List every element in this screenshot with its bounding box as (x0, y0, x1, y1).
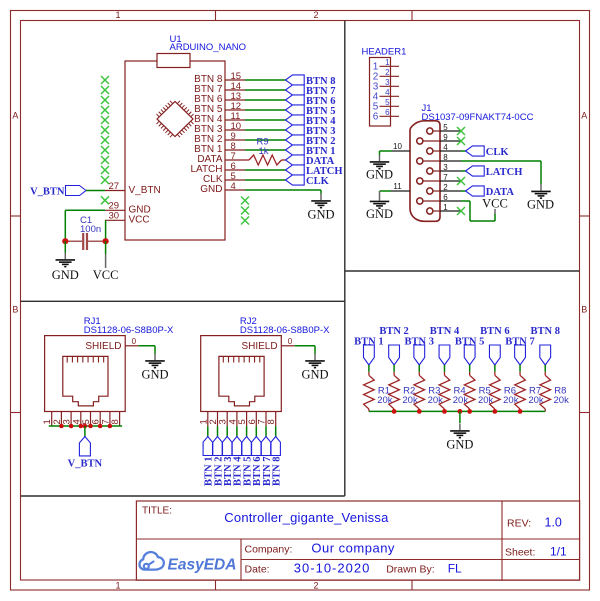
border label row A right (581, 111, 587, 121)
svg-text:VCC: VCC (129, 215, 150, 226)
title block Date: label (245, 564, 270, 576)
RJ2 pin 4 (227, 412, 238, 425)
resistor R5 20k (464, 372, 493, 412)
wire U1 pin to BTN 2 flag (245, 139, 286, 141)
wire BTN 3 flag to R3 (418, 365, 420, 372)
svg-text:BTN 8: BTN 8 (530, 326, 559, 337)
wire U1 pin 30 to C1 (105, 220, 107, 241)
U1 reference label (170, 34, 182, 45)
resistor R2 20k (389, 372, 418, 412)
J1 no-connect pin 1 (457, 207, 465, 215)
border label column 2 top (313, 10, 318, 20)
netflag BTN 8 (286, 75, 336, 87)
svg-text:GND: GND (527, 197, 554, 211)
wire C1 to VCC (105, 241, 107, 254)
U1 pin 5 CLK (203, 171, 245, 185)
power VCC J1 (482, 197, 508, 215)
svg-text:Controller_gigante_Venissa: Controller_gigante_Venissa (224, 510, 389, 525)
netflag BTN 5 (286, 105, 336, 117)
RJ2 pin 3 (218, 412, 229, 425)
svg-text:1: 1 (115, 580, 120, 590)
junction C1 left (62, 238, 68, 244)
wire RJ2 pin 7 to flag (265, 421, 267, 437)
wire ladder to GND (459, 411, 461, 423)
border label row B right (581, 305, 587, 315)
EasyEDA logo (139, 552, 236, 573)
netflag BTN 3 (286, 125, 336, 137)
svg-text:GND: GND (366, 167, 393, 181)
title block TITLE: label (142, 506, 172, 517)
svg-text:BTN 8: BTN 8 (272, 457, 283, 486)
junction C1 right (103, 238, 109, 244)
resistor R3 20k (414, 372, 443, 412)
J1 no-connect pin 9 (457, 137, 465, 145)
svg-text:BTN 6: BTN 6 (480, 326, 509, 337)
wire RJ1 bus to V_BTN (84, 426, 86, 437)
svg-text:Drawn By:: Drawn By: (386, 564, 434, 576)
svg-text:BTN 4: BTN 4 (430, 326, 460, 337)
U1 pin 15 BTN 8 (194, 71, 245, 85)
U1 no-connect pin 1 (241, 217, 249, 225)
netflag BTN 1 ladder (354, 336, 383, 365)
J1 value label DS1037-09FNAKT74-0CC (422, 112, 534, 123)
junction dots RJ1 bus (59, 424, 112, 429)
title block Date value 30-10-2020 (294, 560, 371, 575)
wire BTN 1 flag to R1 (368, 365, 370, 372)
U1 pin 7 DATA (197, 151, 245, 165)
U1 no-connect pins 16-26 (101, 76, 109, 184)
U1 pin 29 GND (105, 201, 151, 216)
svg-text:7: 7 (443, 173, 448, 182)
svg-text:SHIELD: SHIELD (241, 341, 277, 352)
svg-text:B: B (581, 305, 587, 315)
title block Company: label (245, 544, 293, 556)
wire U1 GND pin (245, 190, 321, 194)
J1 pin 2 (427, 183, 461, 194)
svg-text:0: 0 (288, 337, 293, 346)
svg-text:6: 6 (443, 193, 448, 202)
RJ1 pin 1 (42, 412, 53, 425)
netflag BTN 1 (286, 145, 336, 157)
U1 pin 14 BTN 7 (194, 81, 245, 95)
power VCC C1 (93, 254, 119, 282)
svg-text:GND: GND (446, 437, 473, 451)
border column tick marks top (216, 11, 413, 21)
wire U1 pin to BTN 6 flag (245, 99, 286, 101)
title block REV: label (507, 518, 531, 530)
svg-text:GND: GND (141, 368, 168, 382)
wire RJ1 pin bus (49, 421, 122, 426)
netflag BTN 6 at RJ2 (252, 437, 264, 487)
netflag DATA J1 (461, 186, 514, 198)
J1 pin 7 (417, 173, 461, 184)
HEADER1 pin 5 (373, 98, 399, 113)
svg-text:1: 1 (443, 203, 448, 212)
svg-text:100n: 100n (80, 224, 101, 235)
wire J1 pin 8 to GND (461, 161, 541, 184)
J1 pin 8 (417, 153, 461, 164)
U1 no-connect pin 3 (241, 197, 249, 205)
RJ1 pin 2 (52, 412, 63, 425)
netflag BTN 2 ladder (379, 326, 408, 365)
ground RJ1 (141, 354, 168, 382)
J1 reference label (422, 103, 432, 114)
HEADER1 pin 2 (373, 68, 399, 83)
title block REV value 1.0 (545, 516, 562, 530)
U1 no-connect pin 2 (241, 207, 249, 215)
U1 pin 27 V_BTN (105, 181, 161, 196)
svg-text:4: 4 (231, 181, 236, 192)
svg-text:VCC: VCC (482, 197, 508, 211)
U1 pin 30 VCC (105, 211, 150, 226)
svg-text:GND: GND (366, 207, 393, 221)
svg-text:1/1: 1/1 (550, 545, 567, 559)
J1 pin 10 (392, 142, 410, 151)
wire RJ2 pin 3 to flag (226, 421, 228, 437)
U1 pin 10 BTN 3 (194, 121, 245, 135)
svg-text:BTN 2: BTN 2 (379, 326, 408, 337)
J1 no-connect pin 5 (457, 127, 465, 135)
ground J1 pin 10 (366, 155, 393, 182)
wire RJ2 pin 1 to flag (207, 421, 209, 437)
svg-text:B: B (12, 305, 18, 315)
wire RJ2 pin 6 to flag (255, 421, 257, 437)
RJ1 pin 6 (91, 412, 102, 425)
wire J1 pin 11 to GND (380, 190, 392, 192)
svg-text:ARDUINO_NANO: ARDUINO_NANO (170, 42, 247, 53)
svg-text:GND: GND (307, 208, 334, 222)
svg-text:6: 6 (373, 112, 379, 123)
capacitor C1 100n (65, 215, 105, 250)
netflag BTN 5 at RJ2 (242, 437, 254, 487)
svg-text:DS1128-06-S8B0P-X: DS1128-06-S8B0P-X (240, 325, 330, 336)
HEADER1 pin 1 (373, 58, 399, 73)
wire U1 pin 29 to C1 (65, 210, 105, 241)
region divider bottom-left top edge (21, 300, 345, 302)
svg-text:REV:: REV: (507, 518, 531, 530)
svg-text:DS1128-06-S8B0P-X: DS1128-06-S8B0P-X (84, 325, 174, 336)
netflag BTN 4 (286, 115, 337, 127)
svg-text:8: 8 (443, 153, 448, 162)
svg-text:1: 1 (115, 10, 120, 20)
resistor R9 1k (245, 137, 286, 166)
title block Sheet value 1/1 (550, 545, 567, 559)
U1 pin 13 BTN 6 (194, 91, 245, 105)
wire U1 pin to BTN 5 flag (245, 109, 286, 111)
netflag CLK J1 (461, 146, 509, 158)
netflag BTN 5 ladder (455, 336, 484, 365)
svg-text:1k: 1k (259, 146, 269, 157)
region divider vertical (344, 21, 346, 497)
svg-text:3: 3 (443, 163, 448, 172)
svg-text:5: 5 (443, 123, 448, 132)
RJ2 body with jack outline (201, 336, 282, 412)
U1 pin 12 BTN 5 (194, 101, 245, 115)
RJ1 reference label (84, 316, 101, 327)
RJ1 pin 0 SHIELD (85, 337, 138, 352)
netflag LATCH (286, 165, 343, 177)
svg-text:GND: GND (301, 368, 328, 382)
HEADER1 pin 6 (373, 108, 399, 123)
svg-text:4: 4 (385, 88, 390, 97)
netflag BTN 4 at RJ2 (232, 437, 244, 487)
RJ1 pin 7 (100, 412, 111, 425)
wire BTN 5 flag to R5 (469, 365, 471, 372)
netflag BTN 4 ladder (430, 326, 460, 365)
netflag V_BTN input (30, 186, 86, 198)
svg-text:30: 30 (109, 211, 120, 222)
svg-text:20k: 20k (554, 395, 570, 406)
J1 pin 11 (391, 182, 410, 191)
ground U1 (307, 194, 334, 222)
RJ1 body with jack outline (45, 336, 126, 412)
wire V_BTN to U1 pin 27 (86, 190, 105, 192)
J1 no-connect pin 7 (457, 177, 465, 185)
wire RJ2 pin 2 to flag (217, 421, 219, 437)
svg-text:V_BTN: V_BTN (68, 459, 103, 470)
wire U1 pin to BTN 7 flag (245, 89, 286, 91)
svg-text:V_BTN: V_BTN (129, 185, 161, 196)
border label column 2 bottom (313, 580, 318, 590)
title block Drawn By: label (386, 564, 434, 576)
wire U1 pin to BTN 4 flag (245, 119, 286, 121)
svg-text:CLK: CLK (306, 176, 330, 187)
wire U1 LATCH (245, 169, 286, 171)
svg-text:0: 0 (132, 337, 137, 346)
J1 pin 9 (417, 133, 461, 144)
HEADER1 pin 3 (373, 78, 399, 93)
J1 connector body (410, 121, 440, 222)
RJ1 value label DS1128-06-S8B0P-X (84, 325, 174, 336)
svg-text:GND: GND (52, 268, 79, 282)
svg-text:GND: GND (200, 184, 222, 195)
wire BTN 4 flag to R4 (443, 365, 445, 372)
netflag LATCH J1 (461, 166, 522, 178)
U1 chip glyph (156, 101, 193, 137)
svg-text:VCC: VCC (93, 268, 119, 282)
svg-text:2: 2 (385, 68, 390, 77)
wire resistor ladder bus (369, 410, 545, 412)
svg-text:FL: FL (448, 561, 462, 575)
resistor R6 20k (490, 372, 519, 412)
netflag BTN 6 ladder (480, 326, 509, 365)
netflag V_BTN RJ1 (68, 437, 103, 470)
U1 body (125, 61, 225, 240)
U1 no-connect pin 28 (101, 196, 109, 204)
wire C1 to GND (64, 241, 66, 252)
U1 pin 11 BTN 4 (194, 111, 245, 125)
svg-text:2: 2 (443, 183, 448, 192)
RJ2 pin 6 (247, 412, 258, 425)
border column tick marks bottom (216, 580, 413, 590)
netflag BTN 2 (286, 135, 336, 147)
ground ladder (446, 424, 473, 452)
RJ2 pin 8 (266, 412, 277, 425)
U1 pin 4 GND (200, 181, 245, 195)
wire U1 CLK (245, 179, 286, 181)
netflag BTN 3 at RJ2 (223, 437, 235, 487)
title block frame and cell lines (136, 501, 579, 580)
RJ1 pin 5 (81, 412, 92, 425)
title block Drawn By value FL (448, 561, 462, 575)
wire RJ2 pin 5 to flag (246, 421, 248, 437)
RJ2 pin 1 (198, 412, 209, 425)
svg-text:27: 27 (109, 181, 120, 192)
svg-text:Sheet:: Sheet: (505, 547, 535, 559)
resistor R1 20k (364, 372, 393, 412)
J1 pin 4 (427, 143, 461, 154)
HEADER1 label (362, 47, 407, 58)
svg-text:HEADER1: HEADER1 (362, 47, 407, 58)
border label row B left (12, 305, 18, 315)
resistor R4 20k (439, 372, 468, 412)
RJ2 pin 7 (257, 412, 268, 425)
netflag BTN 6 (286, 95, 336, 107)
RJ2 value label DS1128-06-S8B0P-X (240, 325, 330, 336)
wire BTN 2 flag to R2 (393, 365, 395, 372)
svg-text:CLK: CLK (486, 147, 510, 158)
svg-text:1: 1 (385, 58, 390, 67)
resistor R8 20k (540, 372, 569, 412)
HEADER1 pin 4 (373, 88, 399, 103)
wire BTN 7 flag to R7 (519, 365, 521, 372)
svg-text:3: 3 (385, 78, 390, 87)
U1 pin 8 BTN 1 (194, 141, 245, 155)
svg-text:Our company: Our company (311, 540, 395, 555)
wire U1 pin to BTN 1 flag (245, 149, 286, 151)
RJ2 pin 5 (237, 412, 248, 425)
RJ2 pin 0 SHIELD (241, 337, 294, 352)
border label row A left (12, 111, 18, 121)
svg-text:LATCH: LATCH (486, 167, 523, 178)
wire BTN 8 flag to R8 (544, 365, 546, 372)
svg-text:TITLE:: TITLE: (142, 506, 172, 517)
J1 pin 3 (427, 163, 461, 174)
svg-text:V_BTN: V_BTN (30, 187, 65, 198)
title block title text Controller_gigante_Venissa (224, 510, 389, 525)
svg-text:10: 10 (393, 142, 402, 151)
netflag BTN 7 (286, 85, 336, 97)
netflag BTN 7 ladder (505, 336, 534, 365)
border row tick marks right (580, 216, 590, 413)
ground J1 pin 8 (527, 184, 554, 211)
netflag BTN 7 at RJ2 (261, 437, 273, 487)
svg-text:A: A (12, 111, 18, 121)
J1 pin 5 (427, 123, 461, 134)
ground RJ2 (301, 354, 328, 382)
U1 pin 6 LATCH (190, 161, 245, 175)
svg-text:2: 2 (313, 10, 318, 20)
RJ1 pin 8 (110, 412, 121, 425)
region divider horizontal right (345, 270, 580, 272)
svg-text:6: 6 (385, 108, 390, 117)
wire J1 pin 10 to GND (380, 151, 393, 155)
svg-text:Company:: Company: (245, 544, 293, 556)
border label column 1 top (115, 10, 120, 20)
RJ2 pin 2 (208, 412, 219, 425)
wire J1 pin 6 to VCC (461, 201, 495, 221)
ground J1 pin 11 (366, 191, 393, 221)
U1 value label ARDUINO_NANO (170, 42, 247, 53)
J1 pin 1 (427, 203, 461, 214)
wire U1 pin to BTN 8 flag (245, 79, 286, 81)
RJ2 reference label (240, 316, 257, 327)
HEADER1 body (370, 58, 391, 127)
title block Company value Our company (311, 540, 395, 555)
netflag CLK (286, 175, 330, 187)
border row tick marks left (11, 216, 21, 413)
netflag DATA (286, 155, 335, 167)
ground C1 (52, 253, 79, 282)
resistor R7 20k (515, 372, 544, 412)
RJ1 pin 3 (62, 412, 73, 425)
U1 pin 9 BTN 2 (194, 131, 245, 145)
RJ1 pin 4 (71, 412, 82, 425)
svg-text:EasyEDA: EasyEDA (168, 557, 237, 574)
svg-text:SHIELD: SHIELD (85, 341, 121, 352)
netflag BTN 3 ladder (405, 336, 434, 365)
region divider bottom-left bottom edge (21, 495, 345, 497)
svg-text:1.0: 1.0 (545, 516, 562, 530)
netflag BTN 8 ladder (530, 326, 559, 365)
wire RJ2 SHIELD to GND (295, 346, 315, 354)
netflag BTN 8 at RJ2 (271, 437, 283, 487)
wire BTN 6 flag to R6 (494, 365, 496, 372)
J1 pin 6 (417, 193, 461, 204)
svg-text:9: 9 (443, 133, 448, 142)
junction dots ladder (392, 409, 523, 414)
wire RJ1 SHIELD to GND (139, 346, 155, 354)
title block Sheet: label (505, 547, 535, 559)
svg-text:5: 5 (385, 98, 390, 107)
wire U1 pin to BTN 3 flag (245, 129, 286, 131)
svg-text:4: 4 (443, 143, 448, 152)
svg-text:2: 2 (313, 580, 318, 590)
svg-text:Date:: Date: (245, 564, 270, 576)
wire RJ2 pin 4 to flag (236, 421, 238, 437)
border label column 1 bottom (115, 580, 120, 590)
wire RJ2 pin 8 to flag (275, 421, 277, 437)
netflag BTN 2 at RJ2 (213, 437, 225, 487)
svg-text:11: 11 (393, 182, 402, 191)
U1 usb notch (157, 54, 190, 68)
svg-text:A: A (581, 111, 587, 121)
svg-text:30-10-2020: 30-10-2020 (294, 560, 371, 575)
netflag BTN 1 at RJ2 (203, 437, 215, 487)
